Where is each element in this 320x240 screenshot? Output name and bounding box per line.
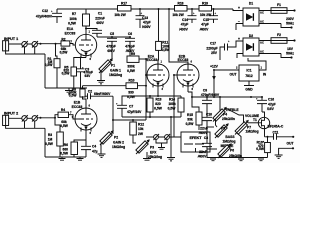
resistor R2 — [60, 37, 76, 54]
capacitor C16 — [256, 96, 276, 112]
capacitor C5 — [106, 32, 117, 61]
svg-text:63V: 63V — [85, 74, 92, 78]
jack OUT — [275, 136, 295, 159]
svg-text:C8: C8 — [204, 136, 208, 140]
triode E1B — [72, 101, 98, 140]
svg-text:400V: 400V — [96, 21, 105, 25]
resistor R6 — [60, 140, 86, 157]
svg-text:F1: F1 — [277, 3, 281, 7]
capacitor C14 — [179, 8, 196, 31]
svg-text:P3: P3 — [150, 146, 154, 150]
resistor R8 — [69, 86, 86, 108]
svg-text:AC: AC — [260, 11, 264, 15]
svg-text:BASS: BASS — [225, 135, 235, 139]
capacitor C9 — [201, 89, 220, 118]
wire gain2 bus — [112, 119, 146, 121]
wire input1 ground bus — [6, 47, 45, 88]
svg-text:1MΩ/log: 1MΩ/log — [222, 140, 235, 144]
capacitor C1 — [85, 12, 105, 38]
svg-text:47µF: 47µF — [268, 102, 276, 106]
resistor R1 — [45, 43, 60, 88]
svg-text:50Hz: 50Hz — [286, 22, 294, 26]
svg-text:C14: C14 — [182, 18, 188, 22]
svg-text:C1: C1 — [98, 12, 102, 16]
bridge rectifier D1 — [233, 2, 291, 30]
transistor T1 BF245A — [253, 117, 284, 137]
svg-text:ECC83: ECC83 — [147, 58, 158, 62]
triode E1A — [65, 27, 97, 61]
svg-text:7812: 7812 — [245, 74, 253, 78]
svg-text:OUT: OUT — [230, 73, 237, 77]
svg-text:230V: 230V — [286, 17, 295, 21]
resistor R10 — [83, 79, 148, 99]
svg-text:C11: C11 — [273, 130, 279, 134]
svg-text:68nF/400V: 68nF/400V — [94, 92, 111, 96]
resistor R12 — [130, 120, 144, 141]
svg-text:0,5W: 0,5W — [60, 124, 69, 128]
resistor R4 — [55, 108, 75, 128]
svg-text:R4: R4 — [61, 108, 65, 112]
capacitor C8 — [198, 136, 212, 158]
wire coupling node — [97, 36, 130, 38]
svg-text:D2: D2 — [249, 34, 253, 38]
wire B+ rail — [57, 8, 233, 10]
svg-text:P1: P1 — [111, 64, 115, 68]
svg-text:ECC83: ECC83 — [65, 31, 76, 35]
svg-text:AC: AC — [260, 20, 264, 24]
resistor R5 — [62, 58, 86, 89]
fuse F2 — [271, 33, 296, 59]
svg-text:R17: R17 — [121, 2, 127, 6]
potentiometer P5 — [207, 123, 229, 138]
svg-text:0,5W: 0,5W — [256, 147, 265, 151]
svg-text:0,5W: 0,5W — [168, 107, 177, 111]
resistor R15 — [186, 92, 202, 130]
label VOLUME — [245, 114, 260, 118]
svg-text:/400V: /400V — [142, 25, 151, 29]
svg-text:C4: C4 — [92, 145, 96, 149]
potentiometer P4 TREBLE — [213, 107, 240, 127]
wire E2A grid feed — [145, 58, 147, 120]
svg-text:100k: 100k — [168, 102, 176, 106]
jack INPUT 1 — [3, 37, 22, 51]
svg-text:10k 2W: 10k 2W — [114, 13, 126, 17]
svg-text:EFEKT: EFEKT — [189, 136, 202, 140]
svg-text:47µF/400V: 47µF/400V — [36, 15, 53, 19]
svg-text:AC: AC — [260, 50, 264, 54]
svg-text:R2: R2 — [61, 37, 65, 41]
svg-text:10k: 10k — [138, 127, 144, 131]
svg-text:820: 820 — [155, 102, 161, 106]
svg-text:C12: C12 — [42, 9, 48, 13]
resistor R16 — [256, 136, 270, 158]
svg-text:R7: R7 — [72, 12, 76, 16]
svg-text:10k 2W: 10k 2W — [172, 13, 184, 17]
svg-text:50Hz: 50Hz — [286, 52, 294, 56]
bridge rectifier D2 — [231, 34, 291, 58]
potentiometer P3 EFX — [133, 139, 162, 160]
resistor R14 — [168, 97, 184, 117]
svg-text:EFX: EFX — [150, 150, 157, 154]
triode E2B — [177, 55, 199, 92]
svg-text:1MΩ/log: 1MΩ/log — [246, 130, 259, 134]
resistor R9 — [127, 52, 146, 73]
potentiometer P1 GAIN 1 — [99, 42, 122, 80]
svg-text:220nF: 220nF — [95, 16, 105, 20]
wire tone ground rail — [207, 158, 268, 161]
svg-text:P5: P5 — [221, 127, 225, 131]
svg-text:/400V: /400V — [199, 131, 208, 135]
svg-text:0,5W: 0,5W — [127, 69, 136, 73]
svg-text:T1: T1 — [253, 118, 257, 122]
svg-text:GAIN 1: GAIN 1 — [110, 68, 121, 72]
svg-text:400V: 400V — [107, 49, 116, 53]
svg-text:/400V: /400V — [200, 27, 209, 31]
svg-text:C13: C13 — [142, 16, 148, 20]
resistor R18 — [172, 2, 187, 17]
svg-text:P2: P2 — [114, 136, 118, 140]
svg-text:R15: R15 — [187, 113, 193, 117]
net 230V 50Hz — [286, 17, 295, 26]
svg-text:R9: R9 — [131, 52, 135, 56]
svg-text:+12V: +12V — [210, 65, 219, 69]
resistor R17 — [114, 2, 131, 17]
svg-text:ECC83: ECC83 — [72, 105, 83, 109]
svg-text:C7: C7 — [129, 105, 133, 109]
svg-text:/400V: /400V — [198, 154, 207, 158]
svg-text:22nF: 22nF — [200, 127, 208, 131]
svg-text:25kΩ/lin: 25kΩ/lin — [222, 117, 235, 121]
capacitor C7 — [116, 96, 150, 117]
svg-text:2200µF: 2200µF — [206, 46, 217, 50]
svg-text:47µ: 47µ — [92, 149, 98, 153]
svg-text:47µF: 47µF — [181, 23, 189, 27]
regulator IC1 7812 — [214, 58, 267, 92]
wire E2B grid — [173, 74, 177, 137]
svg-text:+: + — [238, 6, 240, 10]
svg-text:C15: C15 — [203, 18, 209, 22]
jack switch contacts input2 — [22, 115, 55, 122]
svg-text:47µF: 47µF — [143, 21, 151, 25]
jack INPUT 2 — [3, 112, 22, 126]
svg-text:/16V: /16V — [267, 107, 275, 111]
svg-text:R3: R3 — [48, 133, 52, 137]
svg-text:P6: P6 — [230, 149, 234, 153]
ground first stage — [45, 88, 87, 94]
svg-text:1MΩ/log: 1MΩ/log — [109, 73, 122, 77]
svg-text:R18: R18 — [177, 2, 183, 6]
label BASS MIDDLE — [221, 135, 236, 148]
svg-text:R10: R10 — [128, 79, 134, 83]
potentiometer P7 VOLUME — [227, 109, 259, 158]
svg-text:BF245A-C: BF245A-C — [268, 125, 284, 129]
svg-text:0,5W: 0,5W — [45, 142, 54, 146]
triode E2A — [147, 55, 169, 96]
capacitor C4 — [81, 140, 98, 157]
svg-text:−: − — [238, 20, 240, 24]
capacitor C2 — [82, 90, 113, 121]
svg-text:ECC83: ECC83 — [178, 58, 189, 62]
capacitor C11 — [265, 130, 294, 139]
svg-text:R14: R14 — [169, 97, 175, 101]
wire C16 to T1 drain — [262, 112, 265, 118]
svg-text:0,5W: 0,5W — [60, 51, 69, 55]
svg-text:C10: C10 — [206, 113, 212, 117]
svg-text:0,5W: 0,5W — [69, 94, 78, 98]
svg-text:AC: AC — [260, 41, 264, 45]
wire 12V rail — [213, 96, 252, 98]
svg-text:1M: 1M — [48, 138, 53, 142]
svg-text:47µF/16V: 47µF/16V — [127, 110, 142, 114]
node +12V — [210, 65, 219, 97]
potentiometer P6 — [207, 143, 242, 158]
svg-text:470pF: 470pF — [106, 45, 116, 49]
capacitor C10 — [199, 113, 212, 143]
capacitor C17 — [206, 40, 231, 60]
svg-text:/400V: /400V — [179, 27, 188, 31]
wire E2A cathode node — [149, 95, 181, 98]
svg-text:0,5W: 0,5W — [127, 95, 136, 99]
fuse F1 — [271, 3, 296, 29]
wire E2B plate feed — [168, 8, 188, 64]
wire E2A grid — [146, 74, 151, 76]
wire cathode follower out — [191, 92, 262, 111]
potentiometer P2 GAIN 2 — [98, 120, 126, 157]
svg-text:18V: 18V — [287, 47, 294, 51]
svg-text:330k: 330k — [127, 65, 135, 69]
ground E1B stage — [45, 157, 86, 160]
svg-text:470pF/400V: 470pF/400V — [201, 93, 220, 97]
svg-text:0,5W: 0,5W — [186, 122, 195, 126]
svg-text:25V: 25V — [211, 51, 218, 55]
resistor R7 — [68, 9, 89, 34]
capacitor C13 — [136, 8, 152, 29]
svg-text:R12: R12 — [138, 123, 144, 127]
svg-text:C5: C5 — [110, 32, 114, 36]
capacitor C3 — [77, 57, 94, 88]
capacitor C12 — [36, 9, 62, 23]
svg-text:47µF: 47µF — [201, 23, 209, 27]
jack EFEKT loop — [146, 132, 210, 152]
svg-text:F2: F2 — [277, 33, 281, 37]
svg-text:0,5W: 0,5W — [154, 107, 163, 111]
svg-text:0,5W: 0,5W — [45, 63, 54, 67]
svg-text:P4: P4 — [223, 112, 227, 116]
svg-text:C2: C2 — [88, 90, 92, 94]
svg-text:C17: C17 — [210, 42, 216, 46]
net 18V 50Hz — [286, 47, 294, 56]
svg-text:C16: C16 — [268, 98, 274, 102]
svg-text:GND: GND — [245, 88, 253, 92]
ground P1 — [97, 81, 105, 84]
svg-text:470pF: 470pF — [125, 45, 135, 49]
svg-text:1MΩ/log: 1MΩ/log — [112, 145, 125, 149]
svg-text:0,5W: 0,5W — [60, 152, 69, 156]
svg-text:25kΩ/log: 25kΩ/log — [148, 155, 162, 159]
svg-text:R13: R13 — [155, 97, 161, 101]
resistor R11 — [156, 8, 171, 64]
capacitor C15 — [200, 8, 218, 31]
svg-text:100k: 100k — [69, 17, 77, 21]
jack switch contacts input1 — [22, 41, 61, 48]
svg-text:GAIN 2: GAIN 2 — [113, 140, 124, 144]
svg-text:+: + — [238, 37, 240, 41]
wire cathode ground bus — [122, 116, 181, 161]
resistor R13 — [147, 97, 163, 117]
svg-text:0,5W: 0,5W — [62, 72, 71, 76]
svg-text:R19: R19 — [202, 2, 208, 6]
wire input2 ground bus — [6, 121, 45, 157]
svg-text:OUT: OUT — [287, 142, 294, 146]
capacitor C6 — [125, 32, 135, 56]
resistor R19 — [199, 2, 212, 17]
svg-text:22nF: 22nF — [199, 150, 207, 154]
svg-text:0,5W: 0,5W — [68, 21, 77, 25]
svg-text:IC1: IC1 — [246, 69, 251, 73]
svg-text:C6: C6 — [128, 32, 132, 36]
svg-text:33k: 33k — [187, 118, 193, 122]
svg-text:D1: D1 — [249, 2, 253, 6]
svg-text:10k 2W: 10k 2W — [200, 13, 212, 17]
svg-text:P7: P7 — [247, 125, 251, 129]
resistor R3 — [45, 117, 63, 157]
